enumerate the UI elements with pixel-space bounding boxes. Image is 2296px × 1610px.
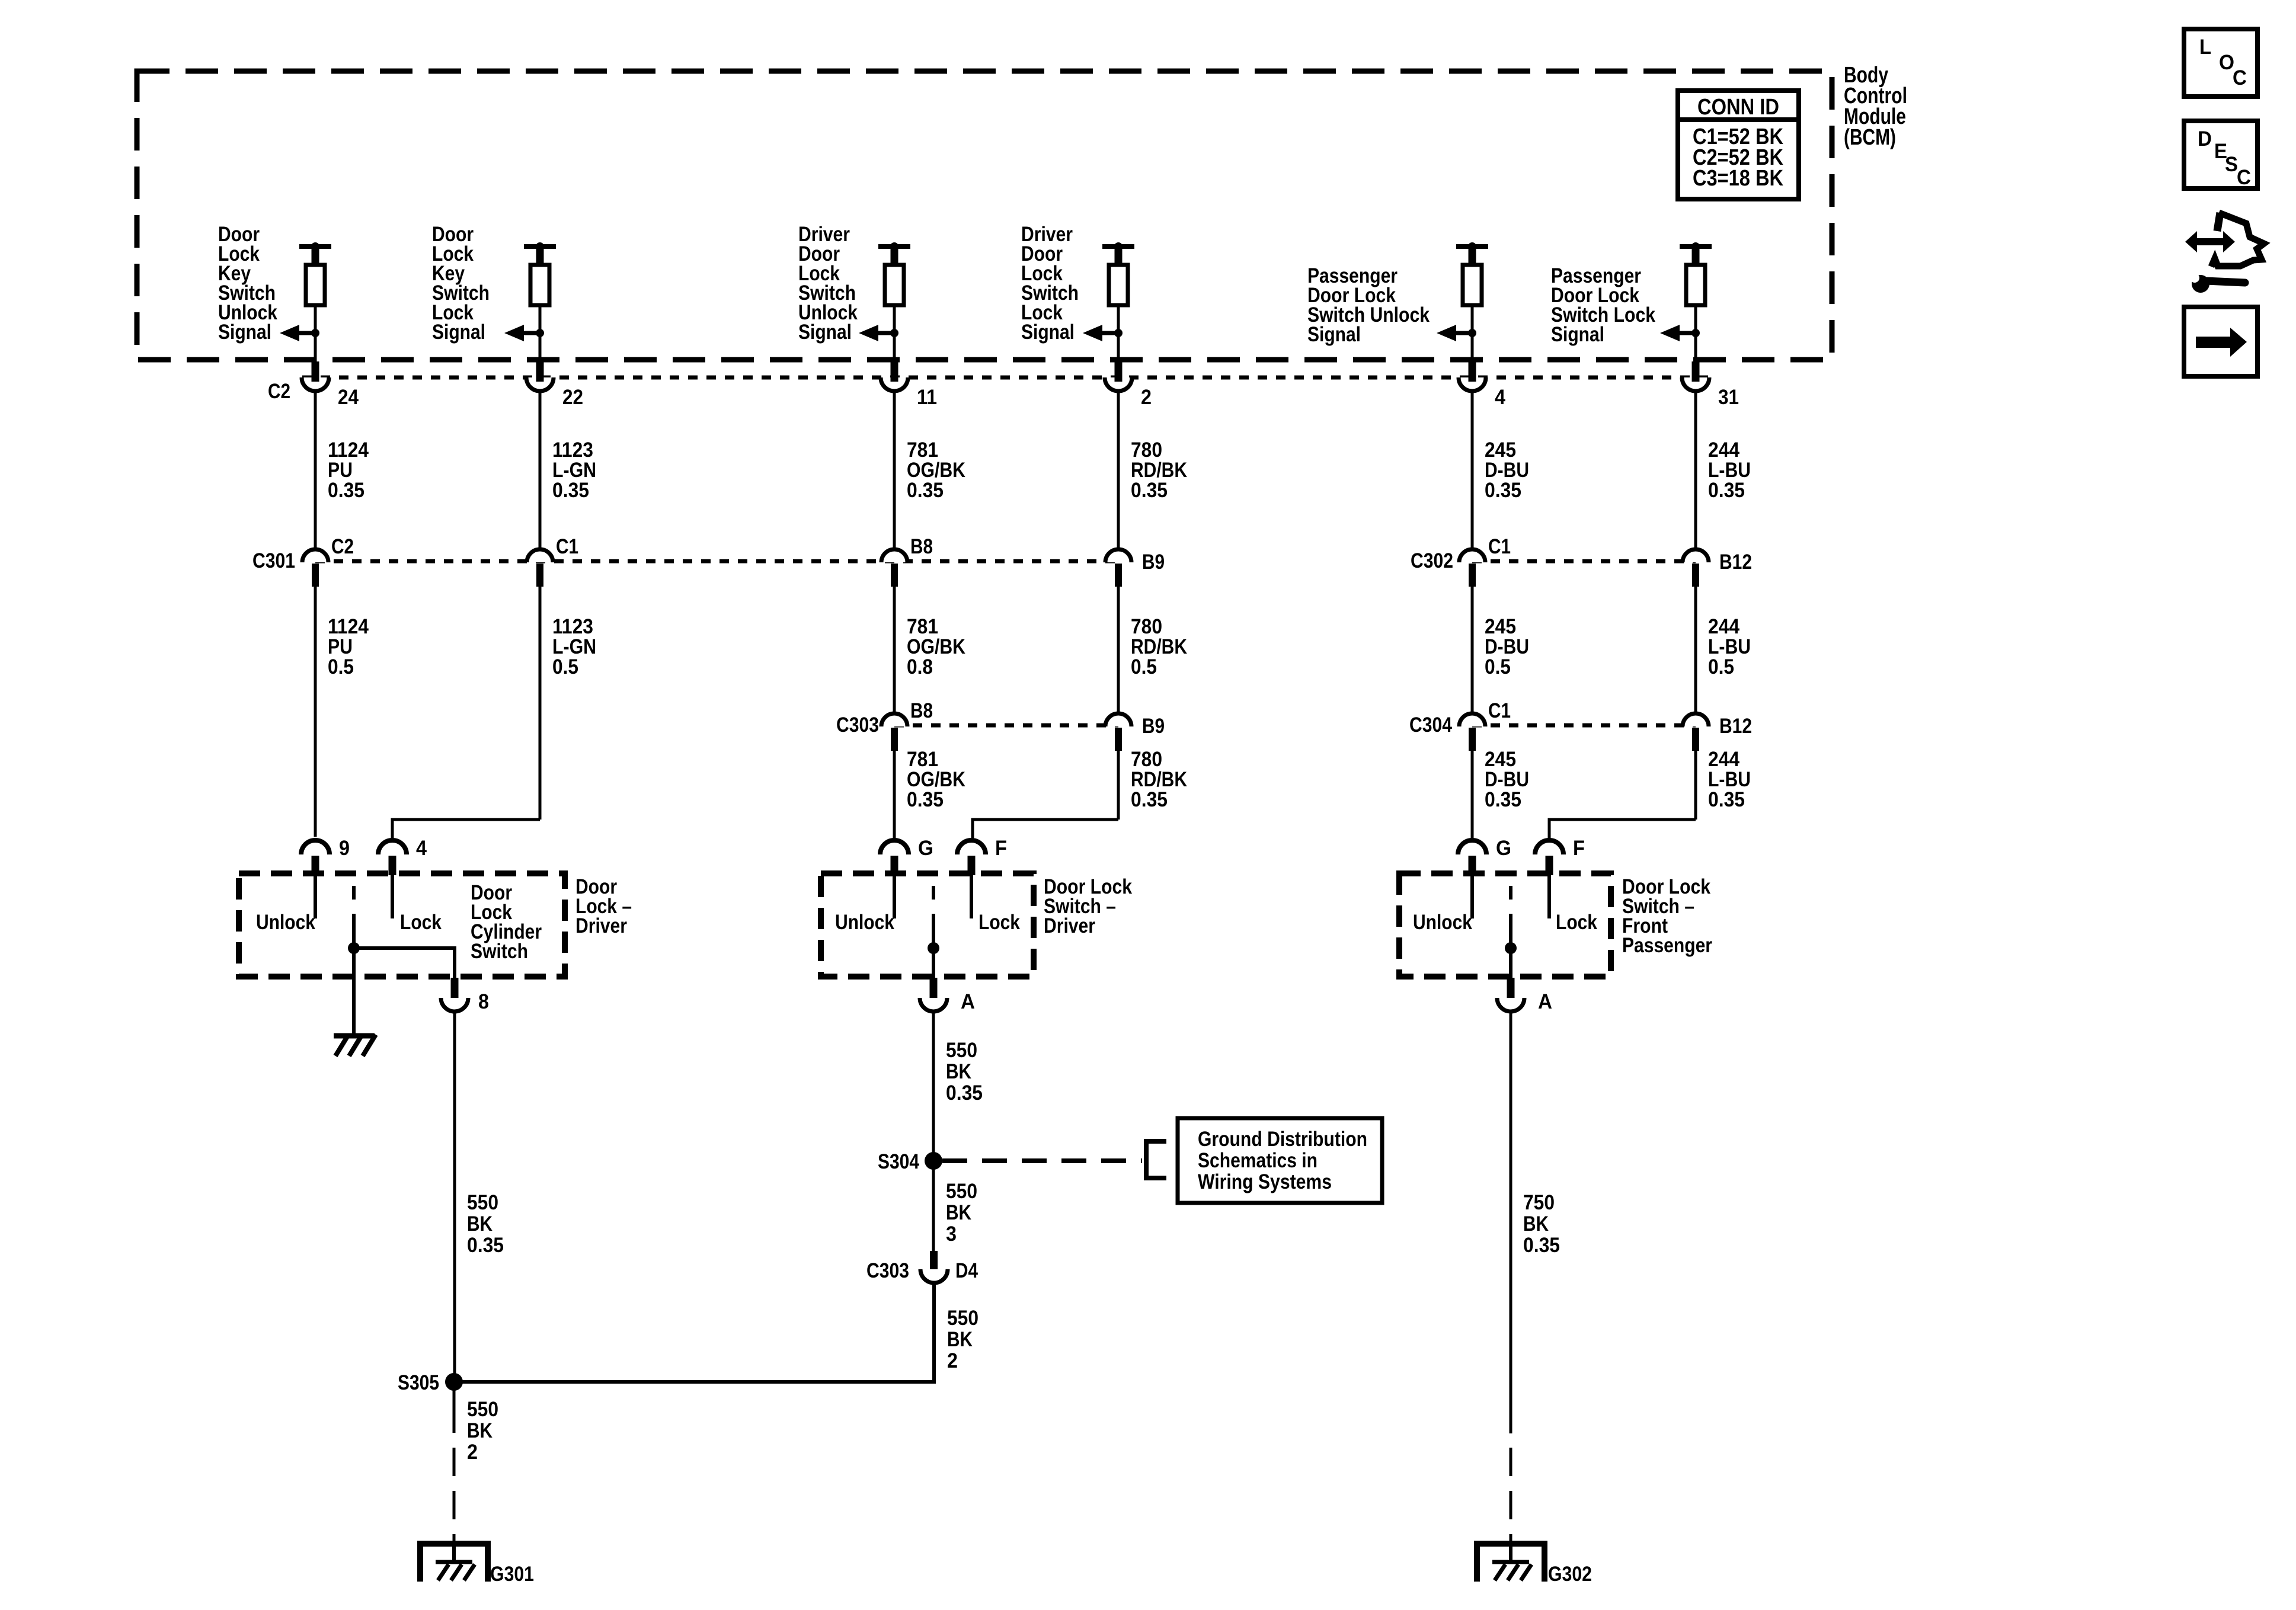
wire circuit 244 L-BU middle segment (1694, 584, 1697, 717)
connector pin stub BCM pin 11 (891, 361, 898, 376)
component box Door Lock Switch - Front Passenger (dashed) (1399, 873, 1611, 977)
cylinder switch common to ground (352, 948, 356, 1036)
svg-text:2: 2 (1141, 386, 1152, 409)
svg-text:C: C (2237, 166, 2251, 189)
svg-text:C304: C304 (1409, 713, 1452, 737)
switch contact lead pin F (970, 875, 973, 918)
connector terminal pin G at x=1509 (880, 840, 909, 854)
connector C303 dotted line (894, 724, 1118, 728)
wire resistor to signal node Door Lock Key Switch Lock Signal (539, 305, 542, 333)
svg-text:B8: B8 (910, 699, 933, 722)
connector pin stub BCM pin 2 (1115, 361, 1123, 376)
wire signal node to BCM edge Passenger Door Lock Switch Lock Signal (1694, 333, 1697, 361)
svg-text:0.5: 0.5 (552, 655, 578, 678)
wire 550 BK 0.35 pinA to S304 (932, 1011, 935, 1161)
wire resistor to signal node Passenger Door Lock Switch Lock Signal (1694, 305, 1697, 333)
BCM internal pin bar Door Lock Key Switch Lock Signal (524, 244, 556, 249)
connector terminal pin F at x=1639 (957, 840, 986, 854)
wire 750 BK 0.35 passenger A to G302 solid (1510, 1011, 1512, 1433)
svg-text:A: A (1538, 990, 1552, 1013)
svg-text:Signal: Signal (1307, 323, 1361, 346)
svg-text:S304: S304 (878, 1150, 919, 1173)
connector C303/C304 terminal B12 (1683, 713, 1709, 726)
signal arrow Door Lock Key Switch Unlock Signal (298, 331, 315, 335)
svg-text:0.35: 0.35 (1485, 788, 1521, 811)
svg-text:3: 3 (946, 1222, 957, 1246)
connector cup BCM pin 2 (1105, 377, 1132, 391)
BCM internal pin bar Door Lock Key Switch Unlock Signal (299, 244, 331, 249)
connector C301/C302 terminal C2 (302, 549, 328, 562)
wire circuit 245 D-BU upper segment (1471, 391, 1474, 552)
svg-text:550: 550 (946, 1180, 977, 1203)
svg-text:0.8: 0.8 (907, 655, 933, 678)
svg-text:C3=18 BK: C3=18 BK (1693, 166, 1783, 191)
wire to G302 dashed (1510, 1448, 1512, 1545)
wire resistor to signal node Door Lock Key Switch Unlock Signal (314, 305, 317, 333)
connector C301/C302 terminal B12 (1683, 549, 1709, 562)
connector C303 cavity D4 (930, 1251, 938, 1269)
splice S304 (925, 1152, 942, 1170)
svg-text:550: 550 (467, 1398, 498, 1421)
svg-text:(BCM): (BCM) (1844, 125, 1896, 150)
svg-text:B8: B8 (910, 535, 933, 558)
BCM internal pin bar Passenger Door Lock Switch Lock Signal (1680, 244, 1712, 249)
svg-text:0.35: 0.35 (1708, 479, 1745, 502)
svg-text:F: F (995, 837, 1007, 860)
svg-text:0.35: 0.35 (552, 479, 589, 502)
signal arrow Passenger Door Lock Switch Unlock Signal (1454, 331, 1472, 335)
wire circuit 244 L-BU upper segment (1694, 391, 1697, 552)
svg-text:0.5: 0.5 (328, 655, 354, 678)
BCM connector face dotted line (302, 376, 1709, 380)
svg-text:C2: C2 (268, 380, 290, 403)
connector cup BCM pin 11 (881, 377, 908, 391)
svg-text:0.35: 0.35 (328, 479, 364, 502)
wire circuit 780 RD/BK middle segment (1117, 584, 1120, 717)
svg-text:B9: B9 (1142, 715, 1165, 738)
svg-text:Unlock: Unlock (835, 911, 894, 934)
wire circuit 1124 PU upper segment (314, 391, 317, 552)
svg-text:Lock: Lock (978, 911, 1020, 934)
BCM internal pin bar Driver Door Lock Switch Unlock Signal (878, 244, 910, 249)
chassis ground (cylinder switch) (334, 1033, 375, 1039)
svg-text:S305: S305 (398, 1371, 439, 1394)
svg-text:Driver: Driver (1044, 914, 1095, 937)
wire circuit 244 L-BU lower segment (1694, 748, 1697, 820)
svg-text:Switch: Switch (471, 940, 528, 963)
svg-text:D4: D4 (955, 1259, 978, 1282)
svg-text:Signal: Signal (798, 321, 852, 344)
svg-text:Signal: Signal (432, 321, 485, 344)
signal arrow Passenger Door Lock Switch Lock Signal (1678, 331, 1696, 335)
BCM internal pin bar Driver Door Lock Switch Lock Signal (1102, 244, 1134, 249)
connector C301/C302 terminal C1 (527, 549, 553, 562)
connector C302 dotted line (1472, 559, 1696, 564)
BCM internal pin bar Passenger Door Lock Switch Unlock Signal (1456, 244, 1488, 249)
connector C303/C304 terminal C1 (1459, 713, 1485, 726)
wire circuit 781 OG/BK upper segment (893, 391, 896, 552)
connector cup BCM pin 31 (1682, 377, 1709, 391)
svg-text:D: D (2198, 127, 2212, 151)
connector cup BCM pin 4 (1459, 377, 1486, 391)
svg-text:550: 550 (467, 1191, 498, 1214)
wire circuit 1123 L-GN upper segment (539, 391, 542, 552)
passenger switch common to pin A (1509, 948, 1512, 978)
svg-text:BK: BK (467, 1212, 493, 1235)
component box Door Lock Switch - Driver (dashed) (821, 873, 1034, 977)
svg-text:2: 2 (947, 1349, 958, 1372)
svg-text:C2: C2 (331, 535, 354, 558)
svg-text:B12: B12 (1719, 715, 1752, 738)
icon wiring repair (double arrow, outline, wrench) (2185, 213, 2264, 293)
resistor (switch load) Passenger Door Lock Switch Lock Signal (1686, 265, 1705, 305)
svg-text:Wiring Systems: Wiring Systems (1198, 1170, 1332, 1193)
svg-text:31: 31 (1718, 386, 1739, 409)
wire circuit 781 OG/BK middle segment (893, 584, 896, 717)
wire 550 BK 3 S304 to C303 D4 (932, 1161, 935, 1251)
connector pin stub BCM pin 4 (1469, 361, 1476, 376)
svg-text:Schematics in: Schematics in (1198, 1149, 1318, 1172)
svg-text:9: 9 (339, 837, 350, 860)
ground G302 (1477, 1544, 1544, 1582)
svg-text:0.35: 0.35 (1523, 1234, 1560, 1257)
resistor (switch load) Driver Door Lock Switch Lock Signal (1109, 265, 1128, 305)
reference bracket (1146, 1141, 1166, 1178)
svg-text:4: 4 (416, 837, 427, 860)
wire signal node to BCM edge Door Lock Key Switch Lock Signal (539, 333, 542, 361)
svg-text:C1: C1 (556, 535, 578, 558)
connector cup pin A (1507, 978, 1515, 998)
ground G301 (420, 1544, 488, 1582)
switch contact lead pin G (893, 875, 896, 918)
svg-text:0.5: 0.5 (1131, 655, 1157, 678)
wire circuit 1123 L-GN middle segment (539, 584, 542, 820)
svg-text:G: G (1496, 837, 1511, 860)
svg-text:A: A (961, 990, 975, 1013)
svg-text:0.5: 0.5 (1485, 655, 1511, 678)
svg-text:CONN ID: CONN ID (1697, 95, 1779, 120)
switch common wiper at x=2549 (1509, 886, 1512, 900)
connector cup BCM pin 22 (526, 377, 554, 391)
connector terminal pin F at x=2614 (1535, 840, 1563, 854)
switch contact lead pin G (1470, 875, 1474, 918)
svg-text:0.35: 0.35 (1485, 479, 1521, 502)
signal arrow Driver Door Lock Switch Unlock Signal (877, 331, 894, 335)
wire resistor to signal node Driver Door Lock Switch Unlock Signal (893, 305, 896, 333)
svg-text:BK: BK (946, 1201, 971, 1224)
connector terminal pin 9 at x=532 (301, 840, 330, 854)
svg-text:0.35: 0.35 (946, 1081, 983, 1105)
svg-text:F: F (1573, 837, 1585, 860)
connector terminal pin G at x=2484 (1458, 840, 1486, 854)
connector C301/C302 terminal B8 (881, 549, 907, 562)
connector C303/C304 terminal B8 (881, 713, 907, 726)
svg-text:24: 24 (338, 386, 359, 409)
wire circuit 780 RD/BK upper segment (1117, 391, 1120, 552)
svg-text:0.35: 0.35 (1708, 788, 1745, 811)
connector C301/C302 terminal B9 (1105, 549, 1131, 562)
svg-text:G302: G302 (1548, 1563, 1592, 1586)
switch common wiper at x=597 (352, 886, 356, 900)
svg-text:22: 22 (562, 386, 583, 409)
signal arrow Driver Door Lock Switch Lock Signal (1101, 331, 1118, 335)
svg-text:Lock: Lock (400, 911, 442, 934)
CONN ID table box (1678, 91, 1799, 199)
svg-text:Lock: Lock (1556, 911, 1597, 934)
signal arrow Door Lock Key Switch Lock Signal (522, 331, 540, 335)
wire signal node to BCM edge Passenger Door Lock Switch Unlock Signal (1471, 333, 1474, 361)
connector terminal pin 4 at x=662 (378, 840, 407, 854)
svg-text:B12: B12 (1719, 550, 1752, 574)
svg-text:C1: C1 (1488, 535, 1511, 558)
svg-text:11: 11 (917, 386, 937, 409)
svg-text:0.35: 0.35 (467, 1234, 504, 1257)
wire circuit 245 D-BU middle segment (1471, 584, 1474, 717)
svg-text:Signal: Signal (218, 321, 271, 344)
connector cup pin A (930, 978, 938, 998)
wire signal node to BCM edge Door Lock Key Switch Unlock Signal (314, 333, 317, 361)
svg-text:0.35: 0.35 (1131, 788, 1168, 811)
wire jog from x=2861 to x=2614 (1549, 820, 1696, 842)
connector cup BCM pin 24 (302, 377, 329, 391)
icon box LOC (2184, 29, 2257, 97)
connector pin stub BCM pin 31 (1692, 361, 1700, 376)
component box Door Lock Cylinder Switch (dashed) (239, 873, 565, 977)
svg-text:Passenger: Passenger (1622, 934, 1712, 957)
svg-text:C301: C301 (252, 549, 295, 572)
resistor (switch load) Door Lock Key Switch Lock Signal (530, 265, 549, 305)
svg-text:0.5: 0.5 (1708, 655, 1734, 678)
svg-text:8: 8 (478, 990, 489, 1013)
svg-text:S: S (2225, 153, 2238, 176)
svg-text:C303: C303 (866, 1259, 909, 1282)
connector C301 dotted line (315, 559, 1118, 564)
svg-text:550: 550 (946, 1039, 977, 1062)
resistor (switch load) Passenger Door Lock Switch Unlock Signal (1463, 265, 1482, 305)
wire circuit 780 RD/BK lower segment (1117, 748, 1120, 820)
switch contact lead pin 9 (314, 875, 317, 918)
switch contact lead pin F (1547, 875, 1551, 918)
svg-text:2: 2 (467, 1441, 478, 1464)
svg-text:G: G (918, 837, 933, 860)
svg-text:C302: C302 (1411, 549, 1453, 572)
splice S305 (445, 1373, 463, 1391)
wire S305 to G301 solid (453, 1382, 456, 1433)
connector C304 dotted line (1472, 724, 1696, 728)
wire circuit 781 OG/BK lower segment (893, 748, 896, 842)
switch common wiper at x=1575 (932, 886, 935, 900)
resistor (switch load) Driver Door Lock Switch Unlock Signal (885, 265, 904, 305)
svg-text:C1: C1 (1488, 699, 1511, 722)
svg-text:Ground Distribution: Ground Distribution (1198, 1128, 1367, 1151)
svg-text:Signal: Signal (1551, 323, 1604, 346)
svg-text:BK: BK (467, 1419, 493, 1442)
connector C303/C304 terminal B9 (1105, 713, 1131, 726)
svg-text:0.35: 0.35 (907, 788, 944, 811)
icon box arrow (2184, 307, 2257, 376)
driver switch common to pin A (932, 948, 935, 978)
wire resistor to signal node Driver Door Lock Switch Lock Signal (1117, 305, 1120, 333)
svg-text:C: C (2233, 66, 2247, 89)
svg-text:G301: G301 (490, 1563, 534, 1586)
connector cup pin 8 (451, 978, 459, 998)
module box BCM (dashed) (137, 71, 1832, 360)
svg-text:Driver: Driver (575, 914, 627, 937)
wire circuit 245 D-BU lower segment (1471, 748, 1474, 842)
wire circuit 1124 PU middle segment (314, 584, 317, 837)
switch contact lead pin 4 (391, 875, 394, 918)
svg-text:550: 550 (947, 1307, 978, 1330)
note box Ground Distribution Schematics in Wiring Systems (1178, 1118, 1382, 1203)
icon box DESC (2184, 121, 2257, 188)
svg-text:L: L (2199, 36, 2211, 59)
connector C301/C302 terminal C1 (1459, 549, 1485, 562)
connector pin stub BCM pin 24 (312, 361, 319, 376)
svg-text:C303: C303 (836, 713, 879, 737)
svg-text:Signal: Signal (1021, 321, 1075, 344)
svg-text:B9: B9 (1142, 550, 1165, 574)
wire S305 to G301 dashed (453, 1448, 456, 1545)
svg-text:Unlock: Unlock (1413, 911, 1472, 934)
resistor (switch load) Door Lock Key Switch Unlock Signal (306, 265, 325, 305)
svg-text:0.35: 0.35 (1131, 479, 1168, 502)
svg-text:750: 750 (1523, 1191, 1555, 1214)
svg-text:4: 4 (1495, 386, 1505, 409)
wire signal node to BCM edge Driver Door Lock Switch Lock Signal (1117, 333, 1120, 361)
svg-text:BK: BK (1523, 1212, 1549, 1235)
svg-text:Unlock: Unlock (256, 911, 315, 934)
svg-text:BK: BK (946, 1060, 971, 1083)
cylinder switch common to pin 8 route (354, 948, 455, 978)
wire jog from x=911 to x=662 (392, 820, 540, 842)
svg-text:0.35: 0.35 (907, 479, 944, 502)
wire 550 BK 0.35 pin8 to S305 (453, 1011, 456, 1382)
wire S305 to C303 D4 horizontal (454, 1283, 934, 1382)
wire signal node to BCM edge Driver Door Lock Switch Unlock Signal (893, 333, 896, 361)
wire jog from x=1887 to x=1641 (973, 820, 1118, 842)
connector pin stub BCM pin 22 (536, 361, 544, 376)
svg-text:BK: BK (947, 1328, 973, 1351)
dashed reference line S304 to note (942, 1158, 1142, 1163)
wire resistor to signal node Passenger Door Lock Switch Unlock Signal (1471, 305, 1474, 333)
